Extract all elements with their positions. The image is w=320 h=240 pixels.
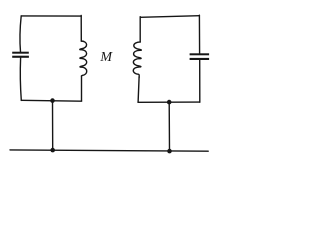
junction dot: right tank bottom node <box>167 100 172 105</box>
wire: left tank right vertical below inductor <box>81 76 83 101</box>
wire: left tank left vertical below capacitor <box>19 58 22 101</box>
wire: left tank right vertical above inductor <box>80 16 82 42</box>
junction dot: rail right node <box>167 149 172 154</box>
capacitor C2 <box>190 53 210 60</box>
inductor L1 <box>80 41 87 76</box>
wire: left drop to rail <box>52 101 54 150</box>
inductor L2 <box>133 42 141 77</box>
wire: bottom rail <box>10 150 208 151</box>
wire: left tank top <box>21 15 81 17</box>
wire: right tank top <box>140 16 199 18</box>
capacitor C1 <box>12 52 29 58</box>
wire: right tank bottom <box>138 101 200 103</box>
junction dot: rail left node <box>50 148 55 153</box>
wire: right tank left vertical below inductor <box>138 77 139 102</box>
wire: right tank right vertical below capacitor <box>199 60 201 102</box>
wire: left tank left vertical above capacitor <box>20 16 21 52</box>
wire: right drop to rail <box>168 102 170 151</box>
wire: left tank bottom <box>21 99 81 102</box>
wire: right tank left vertical above inductor <box>139 17 141 42</box>
junction dot: left tank bottom node <box>50 98 55 103</box>
svg-text:M: M <box>99 50 113 65</box>
wire: right tank right vertical above capacitor <box>198 15 200 53</box>
